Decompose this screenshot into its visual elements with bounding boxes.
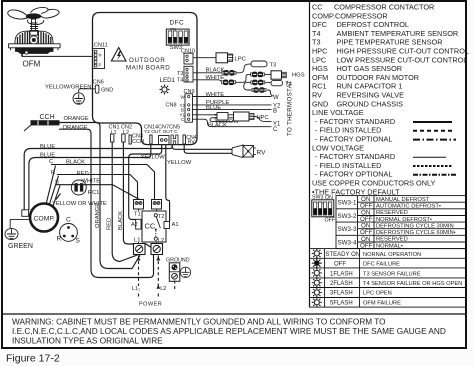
svg-text:OFF: OFF	[334, 262, 346, 268]
svg-text:CN8: CN8	[166, 103, 177, 109]
svg-text:- FIELD INSTALLED: - FIELD INSTALLED	[315, 161, 381, 170]
svg-text:OFF: OFF	[325, 218, 336, 224]
svg-text:RESERVED: RESERVED	[376, 210, 408, 216]
svg-text:S: S	[76, 238, 81, 245]
svg-text:DFC: DFC	[312, 20, 327, 29]
svg-text:SW3-1: SW3-1	[338, 200, 357, 207]
svg-text:WARNING: CABINET MUST BE PERMA: WARNING: CABINET MUST BE PERMANMENTLY GO…	[12, 318, 386, 327]
svg-text:LPC: LPC	[235, 57, 246, 63]
svg-text:HOT GAS SENSOR: HOT GAS SENSOR	[337, 64, 403, 73]
svg-text:GND: GND	[101, 87, 113, 93]
svg-text:MAIN BOARD: MAIN BOARD	[126, 65, 170, 72]
svg-text:BLACK: BLACK	[118, 211, 124, 230]
svg-text:HPC: HPC	[312, 47, 327, 56]
svg-text:YELLOW/GREEN: YELLOW/GREEN	[45, 84, 91, 90]
svg-text:T4: T4	[177, 78, 183, 84]
svg-text:LPC: LPC	[312, 55, 326, 64]
svg-text:WHITE: WHITE	[206, 75, 225, 81]
svg-text:DFC: DFC	[170, 20, 185, 27]
svg-text:T3: T3	[312, 38, 321, 47]
svg-text:INSULATION TYPE AS ORIGINAL WI: INSULATION TYPE AS ORIGINAL WIRE	[12, 337, 163, 346]
svg-text:T1: T1	[134, 212, 141, 218]
svg-text:TO THERMOSTAT: TO THERMOSTAT	[287, 80, 294, 136]
svg-text:LOW VOLTAGE: LOW VOLTAGE	[312, 143, 364, 152]
svg-text:RV: RV	[312, 91, 322, 100]
svg-text:B: B	[273, 109, 277, 115]
svg-text:SW3-4: SW3-4	[338, 239, 357, 246]
svg-text:BLUE: BLUE	[40, 144, 55, 150]
svg-text:DEFROSTING CYCLE 60MIN•: DEFROSTING CYCLE 60MIN•	[376, 230, 456, 236]
svg-text:Figure 17-2: Figure 17-2	[6, 353, 60, 365]
svg-text:NORNAL OPERATION: NORNAL OPERATION	[363, 252, 421, 258]
svg-text:CC: CC	[145, 222, 156, 231]
svg-text:2FLASH: 2FLASH	[330, 281, 353, 287]
svg-text:HIGH PRESSURE CUT-OUT CONTROL: HIGH PRESSURE CUT-OUT CONTROL	[337, 47, 469, 56]
svg-text:CCH: CCH	[132, 139, 144, 145]
svg-text:T4 SENSOR FAILURE OR HGS OPEN: T4 SENSOR FAILURE OR HGS OPEN	[363, 281, 462, 287]
svg-text:HGS: HGS	[292, 73, 305, 79]
svg-text:- FACTORY STANDARD: - FACTORY STANDARD	[315, 152, 395, 161]
svg-text:ORANGE: ORANGE	[63, 125, 88, 131]
svg-text:CC: CC	[312, 3, 323, 12]
svg-text:- FIELD INSTALLED: - FIELD INSTALLED	[315, 126, 381, 135]
svg-text:BLUE: BLUE	[40, 153, 55, 159]
svg-text:CCH: CCH	[40, 114, 55, 121]
svg-text:T3: T3	[270, 63, 277, 69]
svg-text:DEFROSTING CYCLE 30MIN: DEFROSTING CYCLE 30MIN	[376, 223, 454, 229]
svg-text:BLUE: BLUE	[206, 105, 221, 111]
svg-text:POWER: POWER	[139, 301, 162, 307]
svg-text:COMP.COMPRESSOR: COMP.COMPRESSOR	[312, 11, 388, 20]
svg-text:WHITE: WHITE	[206, 92, 225, 98]
svg-text:RED: RED	[107, 218, 113, 230]
svg-text:OFM: OFM	[23, 60, 41, 69]
svg-text:RC1: RC1	[312, 82, 327, 91]
svg-text:CN11: CN11	[94, 43, 108, 49]
svg-text:R: R	[57, 236, 62, 243]
svg-text:YELLOW OR WHITE: YELLOW OR WHITE	[52, 201, 107, 207]
svg-text:ON: ON	[170, 27, 176, 32]
svg-text:C: C	[66, 217, 71, 224]
svg-text:DEFROST CONTROL: DEFROST CONTROL	[337, 20, 409, 29]
svg-text:OUTDOOR: OUTDOOR	[129, 57, 166, 64]
svg-text:RUN CAPACITOR 1: RUN CAPACITOR 1	[337, 82, 403, 91]
svg-text:L2: L2	[160, 286, 166, 292]
svg-text:N: N	[99, 53, 102, 58]
svg-text:RV: RV	[257, 149, 267, 156]
svg-text:HGS: HGS	[312, 64, 328, 73]
svg-text:L1₁: L1₁	[132, 286, 140, 292]
svg-text:RC1: RC1	[88, 190, 100, 196]
svg-text:C: C	[273, 127, 278, 133]
svg-text:P: P	[99, 63, 102, 68]
svg-text:A2: A2	[131, 222, 138, 228]
svg-text:- FACTORY OPTIONAL: - FACTORY OPTIONAL	[315, 170, 392, 179]
svg-text:OFM FAILURE: OFM FAILURE	[363, 300, 401, 306]
svg-text:YELLOW: YELLOW	[167, 160, 192, 166]
svg-text:PIPE TEMPERATURE SENSOR: PIPE TEMPERATURE SENSOR	[337, 38, 443, 47]
svg-text:A1: A1	[172, 222, 179, 228]
svg-text:I.E.C,N.E.C,C.L.C,AND LOCAL CO: I.E.C,N.E.C,C.L.C,AND LOCAL CODES AS APP…	[12, 327, 446, 336]
svg-text:T3 SENSOR FAILURE: T3 SENSOR FAILURE	[363, 271, 421, 277]
svg-text:HPC: HPC	[257, 115, 269, 121]
svg-text:OFM: OFM	[312, 73, 328, 82]
svg-text:USE COPPER CONDUCTORS ONLY: USE COPPER CONDUCTORS ONLY	[312, 179, 436, 188]
svg-text:5FLASH: 5FLASH	[330, 300, 353, 306]
svg-text:GREEN: GREEN	[8, 243, 33, 250]
svg-text:YELLOW: YELLOW	[141, 155, 166, 161]
svg-text:ORANGE: ORANGE	[64, 116, 89, 122]
svg-text:SW3-2: SW3-2	[338, 213, 357, 220]
svg-text:LOW PRESSURE CUT-OUT CONTROL: LOW PRESSURE CUT-OUT CONTROL	[337, 55, 468, 64]
svg-text:OUTDOOR FAN MOTOR: OUTDOOR FAN MOTOR	[337, 73, 420, 82]
svg-text:W: W	[273, 95, 279, 101]
svg-text:LED1: LED1	[160, 77, 176, 84]
svg-text:BLACK: BLACK	[208, 123, 227, 129]
svg-text:NORMAL DEFROST•: NORMAL DEFROST•	[376, 217, 432, 223]
svg-text:LINE VOLTAGE: LINE VOLTAGE	[312, 108, 364, 117]
svg-text:GND: GND	[312, 99, 328, 108]
svg-text:MANUAL DEFROST: MANUAL DEFROST	[376, 197, 430, 203]
svg-text:L2: L2	[158, 238, 164, 244]
svg-text:AMBIENT TEMPERATURE SENSOR: AMBIENT TEMPERATURE SENSOR	[337, 29, 459, 38]
svg-text:T4: T4	[312, 29, 321, 38]
svg-text:AUTOMATIC DEFROST•: AUTOMATIC DEFROST•	[376, 204, 441, 210]
svg-text:SW3-3: SW3-3	[338, 226, 357, 233]
svg-text:DFC FAILURE: DFC FAILURE	[363, 262, 400, 268]
svg-text:- FACTORY STANDARD: - FACTORY STANDARD	[315, 117, 395, 126]
svg-text:Y2 OUT OUT C: Y2 OUT OUT C	[144, 129, 178, 135]
svg-text:COMP.: COMP.	[34, 216, 56, 223]
svg-text:STEADY ON: STEADY ON	[326, 252, 361, 258]
svg-text:- FACTORY OPTIONAL: - FACTORY OPTIONAL	[315, 135, 392, 144]
svg-text:COMPRESSOR CONTACTOR: COMPRESSOR CONTACTOR	[334, 3, 434, 12]
svg-text:LPC OPEN: LPC OPEN	[363, 291, 392, 297]
svg-text:RV: RV	[188, 140, 196, 146]
svg-text:3FLASH: 3FLASH	[330, 291, 353, 297]
svg-text:L1: L1	[134, 238, 140, 244]
svg-text:REVERSING VALVE: REVERSING VALVE	[337, 91, 405, 100]
svg-text:RESERVED: RESERVED	[376, 237, 408, 243]
svg-text:CN6: CN6	[93, 80, 104, 86]
svg-text:T2: T2	[158, 214, 164, 220]
svg-text:GROUND CHASSIS: GROUND CHASSIS	[337, 99, 404, 108]
svg-text:1FLASH: 1FLASH	[330, 271, 353, 277]
svg-text:T3: T3	[177, 71, 183, 77]
